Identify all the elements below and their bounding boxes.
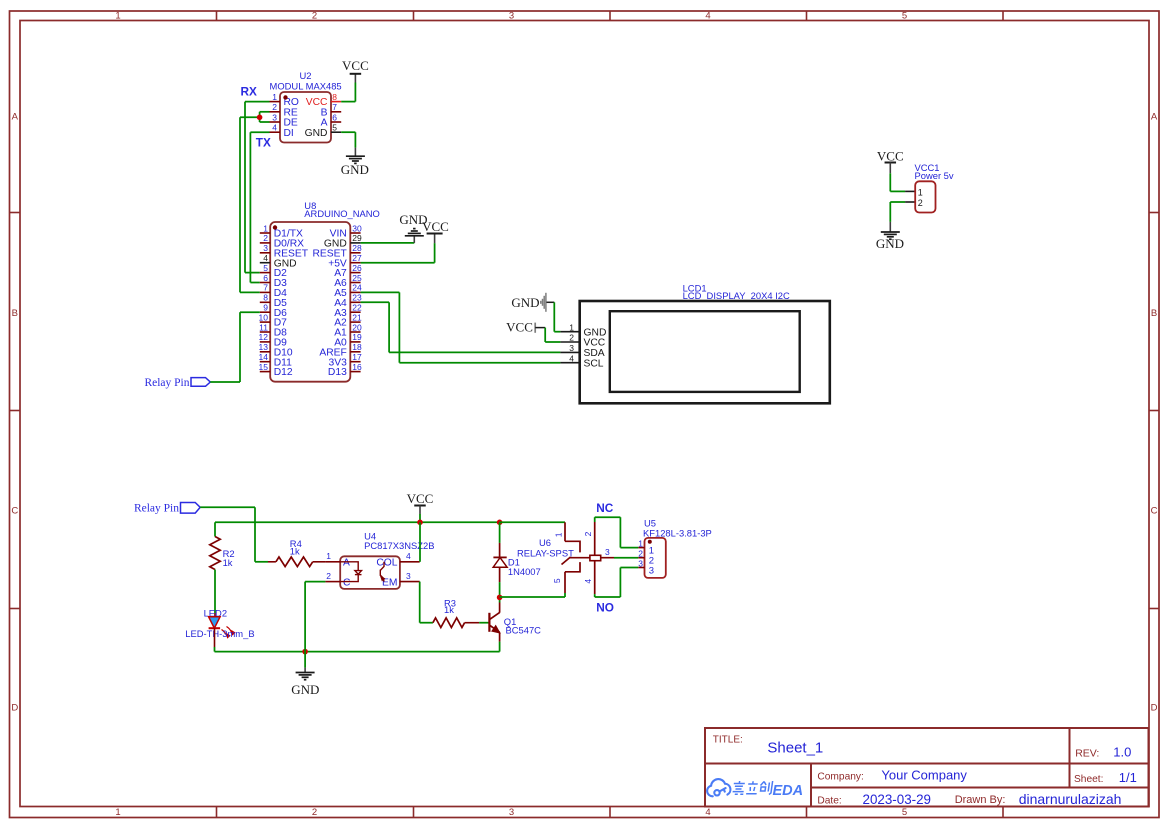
svg-text:RX: RX: [241, 85, 258, 99]
svg-text:RELAY-SPST: RELAY-SPST: [517, 548, 574, 559]
svg-text:VCC: VCC: [342, 58, 369, 73]
svg-text:GND: GND: [305, 128, 328, 139]
svg-text:D13: D13: [328, 367, 347, 378]
svg-text:GND: GND: [291, 682, 319, 697]
svg-text:3: 3: [272, 112, 277, 122]
svg-text:3: 3: [406, 571, 411, 581]
svg-text:13: 13: [259, 342, 269, 352]
svg-text:VCC: VCC: [584, 338, 606, 349]
svg-text:ARDUINO_NANO: ARDUINO_NANO: [304, 208, 380, 219]
svg-text:21: 21: [352, 312, 362, 322]
svg-text:8: 8: [332, 92, 337, 102]
svg-text:Relay Pin: Relay Pin: [144, 377, 189, 389]
svg-text:VCC: VCC: [407, 491, 434, 506]
svg-text:TITLE:: TITLE:: [713, 735, 743, 746]
svg-text:PC817X3NSZ2B: PC817X3NSZ2B: [364, 540, 434, 551]
svg-text:2: 2: [638, 549, 643, 559]
svg-text:23: 23: [352, 293, 362, 303]
svg-text:C: C: [343, 577, 351, 588]
svg-text:EDA: EDA: [773, 783, 804, 799]
svg-text:4: 4: [705, 11, 710, 22]
svg-text:1N4007: 1N4007: [508, 566, 541, 577]
svg-text:KF128L-3.81-3P: KF128L-3.81-3P: [643, 527, 712, 538]
svg-text:D: D: [1151, 703, 1158, 714]
svg-text:1: 1: [554, 532, 564, 537]
svg-text:Company:: Company:: [817, 771, 863, 782]
svg-text:15: 15: [259, 362, 269, 372]
svg-text:A: A: [343, 558, 350, 569]
svg-text:14: 14: [259, 352, 269, 362]
svg-text:8: 8: [263, 293, 268, 303]
svg-text:2: 2: [583, 531, 593, 536]
svg-text:BC547C: BC547C: [506, 625, 542, 636]
svg-text:Relay Pin: Relay Pin: [134, 502, 179, 514]
svg-text:4: 4: [569, 353, 574, 363]
svg-text:U2: U2: [300, 70, 312, 81]
svg-text:REV:: REV:: [1075, 748, 1099, 760]
svg-text:2: 2: [263, 233, 268, 243]
svg-text:1: 1: [638, 538, 643, 548]
svg-text:5: 5: [552, 578, 562, 583]
svg-text:C: C: [11, 506, 18, 517]
svg-text:1k: 1k: [444, 604, 454, 615]
svg-text:C: C: [1151, 506, 1158, 517]
svg-text:24: 24: [352, 283, 362, 293]
svg-text:3: 3: [509, 11, 514, 22]
svg-text:2: 2: [569, 333, 574, 343]
svg-text:3: 3: [638, 558, 643, 568]
svg-text:1: 1: [326, 551, 331, 561]
svg-text:20: 20: [352, 322, 362, 332]
svg-text:27: 27: [352, 253, 362, 263]
svg-text:1k: 1k: [290, 546, 300, 557]
svg-text:2023-03-29: 2023-03-29: [863, 792, 932, 807]
svg-text:1: 1: [263, 223, 268, 233]
svg-text:29: 29: [352, 233, 362, 243]
svg-text:VCC: VCC: [506, 320, 533, 335]
svg-text:B: B: [12, 308, 18, 319]
svg-text:3: 3: [569, 343, 574, 353]
svg-text:Date:: Date:: [817, 796, 841, 807]
svg-text:2: 2: [312, 11, 317, 22]
svg-text:1/1: 1/1: [1119, 770, 1137, 785]
svg-text:TX: TX: [256, 136, 271, 150]
svg-text:17: 17: [352, 352, 362, 362]
svg-text:3: 3: [509, 807, 514, 818]
svg-text:Sheet:: Sheet:: [1074, 774, 1103, 785]
svg-text:LCD_DISPLAY_20X4 I2C: LCD_DISPLAY_20X4 I2C: [683, 290, 790, 301]
svg-text:1: 1: [272, 92, 277, 102]
svg-text:Sheet_1: Sheet_1: [767, 739, 823, 756]
svg-text:3: 3: [605, 547, 610, 557]
svg-text:Power 5v: Power 5v: [915, 170, 954, 181]
svg-text:GND: GND: [341, 162, 369, 177]
svg-text:16: 16: [352, 362, 362, 372]
svg-text:2: 2: [918, 198, 923, 208]
svg-text:LED-TH-3mm_B: LED-TH-3mm_B: [185, 628, 254, 639]
svg-text:22: 22: [352, 303, 362, 313]
svg-text:A: A: [1151, 112, 1158, 123]
svg-text:VCC: VCC: [877, 148, 904, 163]
svg-text:9: 9: [263, 303, 268, 313]
svg-text:1: 1: [115, 11, 120, 22]
svg-text:GND: GND: [876, 236, 904, 251]
svg-text:4: 4: [272, 123, 277, 133]
svg-text:NC: NC: [596, 501, 614, 515]
svg-text:DI: DI: [284, 128, 294, 139]
svg-text:2: 2: [326, 571, 331, 581]
svg-text:4: 4: [583, 579, 593, 584]
svg-text:1k: 1k: [223, 557, 233, 568]
svg-text:4: 4: [705, 807, 710, 818]
svg-text:1: 1: [918, 187, 923, 197]
svg-text:19: 19: [352, 332, 362, 342]
svg-text:30: 30: [352, 223, 362, 233]
svg-text:D: D: [11, 703, 18, 714]
svg-text:3: 3: [649, 565, 654, 576]
svg-text:A: A: [12, 112, 19, 123]
svg-text:7: 7: [263, 283, 268, 293]
svg-text:7: 7: [332, 102, 337, 112]
svg-text:1.0: 1.0: [1113, 745, 1131, 760]
svg-text:6: 6: [332, 112, 337, 122]
svg-text:NO: NO: [596, 601, 614, 615]
svg-text:3: 3: [263, 243, 268, 253]
svg-text:4: 4: [263, 253, 268, 263]
svg-text:D12: D12: [274, 367, 293, 378]
svg-text:B: B: [1151, 308, 1157, 319]
svg-text:1: 1: [569, 322, 574, 332]
svg-text:25: 25: [352, 273, 362, 283]
svg-text:5: 5: [902, 807, 907, 818]
svg-text:5: 5: [902, 11, 907, 22]
svg-text:18: 18: [352, 342, 362, 352]
svg-text:Drawn By:: Drawn By:: [955, 794, 1006, 806]
svg-text:2: 2: [312, 807, 317, 818]
svg-text:Your Company: Your Company: [881, 768, 967, 783]
svg-text:U6: U6: [539, 537, 551, 548]
svg-text:dinarnurulazizah: dinarnurulazizah: [1019, 791, 1122, 807]
svg-text:2: 2: [272, 102, 277, 112]
svg-text:5: 5: [263, 263, 268, 273]
svg-text:4: 4: [406, 551, 411, 561]
svg-text:11: 11: [259, 322, 268, 332]
svg-text:6: 6: [263, 273, 268, 283]
svg-text:5: 5: [332, 123, 337, 133]
svg-text:GND: GND: [511, 295, 539, 310]
svg-text:28: 28: [352, 243, 362, 253]
svg-text:VCC: VCC: [422, 219, 449, 234]
svg-text:12: 12: [259, 332, 269, 342]
svg-text:COL: COL: [376, 558, 397, 569]
svg-text:SCL: SCL: [584, 358, 604, 369]
svg-text:10: 10: [259, 312, 269, 322]
svg-text:1: 1: [115, 807, 120, 818]
svg-text:26: 26: [352, 263, 362, 273]
svg-text:MODUL MAX485: MODUL MAX485: [270, 80, 342, 91]
